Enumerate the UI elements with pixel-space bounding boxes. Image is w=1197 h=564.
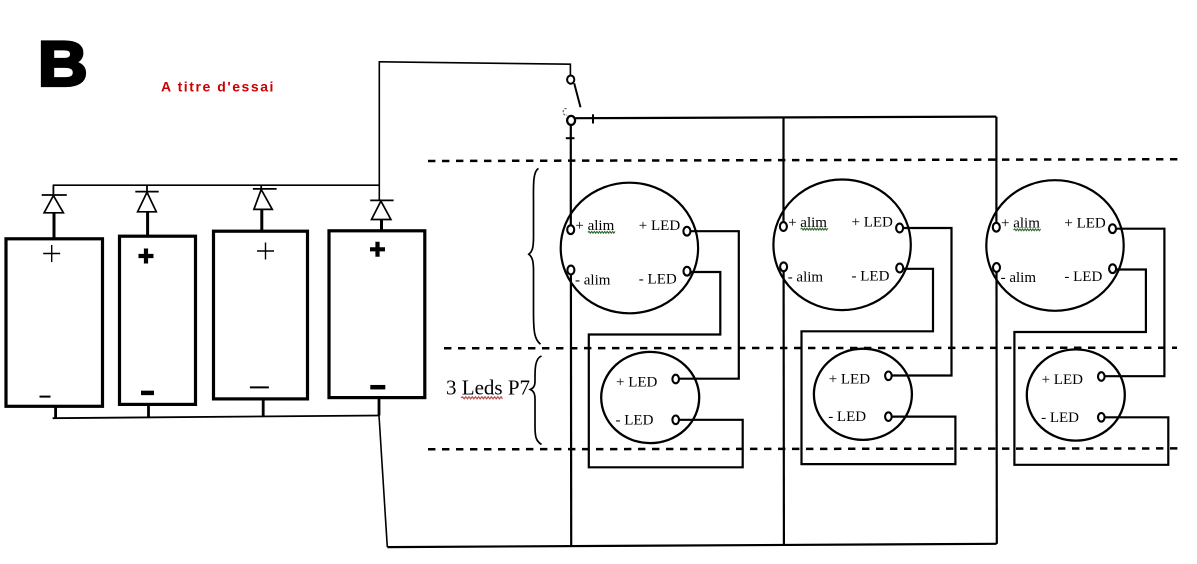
svg-text:A titre d'essai: A titre d'essai [161, 79, 275, 95]
svg-text:- alim: - alim [1001, 270, 1037, 286]
diode D2 [135, 185, 158, 236]
LED 3 pin +LED [1098, 372, 1105, 381]
diode D4 [370, 200, 393, 230]
U3 pin -alim [993, 263, 1000, 272]
switch S1 top terminal [567, 76, 574, 84]
battery B4 [329, 231, 425, 398]
LED 3 pin -LED [1098, 413, 1105, 422]
dashed separator line 3 [428, 447, 1181, 450]
green spellcheck squiggle under alim U2 [801, 228, 828, 230]
LED 2 pin +LED [885, 372, 892, 381]
svg-text:- LED: - LED [1064, 269, 1102, 285]
wire bottom - bus [387, 544, 996, 547]
svg-text:- LED: - LED [639, 272, 677, 288]
U1 pin +alim [567, 225, 574, 234]
svg-text:+ LED: + LED [852, 215, 894, 231]
wire +alim feed column 3 [995, 117, 997, 223]
brace upper (drivers group) [529, 169, 541, 345]
wire U1 +LED output to LED 1 [679, 231, 739, 379]
wire battery negative bus [53, 416, 379, 419]
U1 pin -alim [567, 266, 574, 275]
diode D1 [42, 185, 67, 238]
switch S1 lever [574, 83, 580, 107]
U3 pin +alim [993, 223, 1000, 232]
wire U2 -LED return loop [802, 269, 956, 464]
wire main + supply bus [575, 117, 996, 119]
svg-text:- LED: - LED [828, 409, 866, 425]
svg-text:- LED: - LED [616, 412, 654, 428]
green spellcheck squiggle under alim U3 [1013, 229, 1040, 231]
wire diode cathode bus [53, 184, 380, 186]
svg-text:- LED: - LED [1041, 410, 1079, 426]
wire negative return slant down [379, 416, 387, 548]
battery B1 [6, 239, 103, 406]
wire U3 +LED output to LED 3 [1105, 229, 1165, 377]
LED P7 #3 body [1027, 349, 1125, 440]
LED P7 #2 body [814, 349, 912, 440]
svg-text:- LED: - LED [852, 268, 890, 284]
LED driver U1 body [561, 183, 698, 314]
battery B2 [120, 236, 196, 404]
dashed separator line 2 [444, 346, 1177, 349]
svg-text:+ LED: + LED [616, 375, 658, 391]
wire battery B4 negative stub [378, 398, 381, 416]
tick mark on + bus [592, 114, 594, 123]
svg-text:B: B [38, 29, 88, 99]
wire -alim return column 3 [995, 272, 997, 544]
battery B3 [214, 231, 308, 399]
U1 pin -LED [684, 267, 691, 276]
LED driver U3 body [986, 180, 1123, 311]
wire +alim feed column 2 [782, 117, 784, 221]
svg-text:+ LED: + LED [639, 218, 681, 234]
wire battery B1 negative stub [54, 406, 57, 418]
wire top feed from diode bus up and right to switch [379, 62, 570, 201]
wire battery B3 negative stub [262, 399, 265, 416]
LED 1 pin -LED [672, 416, 679, 425]
svg-text:- alim: - alim [788, 269, 824, 285]
U2 pin +alim [780, 222, 787, 231]
diode D3 [253, 185, 277, 231]
red spellcheck squiggle under Leds [461, 397, 503, 399]
U3 pin -LED [1109, 264, 1116, 273]
svg-text:+ LED: + LED [1042, 372, 1084, 388]
wire -alim return column 2 [782, 271, 785, 545]
switch S1 bottom terminal [567, 116, 575, 125]
U1 pin +LED [683, 227, 690, 236]
U2 pin -LED [896, 264, 903, 273]
LED 2 pin -LED [885, 412, 892, 421]
tick mark on column 1 feed wire [566, 137, 575, 139]
brace lower (Leds group) [530, 356, 541, 445]
switch S1 stray mark [563, 109, 567, 116]
LED P7 #1 body [601, 352, 699, 443]
svg-text:+ LED: + LED [1064, 215, 1106, 231]
U2 pin -alim [780, 262, 787, 271]
wire -alim return column 1 [570, 275, 572, 546]
svg-text:- alim: - alim [575, 273, 611, 289]
U3 pin +LED [1109, 224, 1116, 233]
wire battery B2 negative stub [147, 404, 150, 417]
svg-text:+ LED: + LED [829, 371, 871, 387]
LED driver U2 body [773, 180, 910, 311]
wire U3 -LED return loop [1014, 270, 1168, 465]
wire +alim feed column 1 [570, 124, 572, 225]
U2 pin +LED [896, 224, 903, 233]
dashed separator line 1 [428, 159, 1181, 161]
wire U2 +LED output to LED 2 [892, 228, 952, 376]
LED 1 pin +LED [672, 375, 679, 384]
wire U1 -LED return loop [589, 272, 743, 467]
green spellcheck squiggle under alim U1 [588, 231, 615, 233]
